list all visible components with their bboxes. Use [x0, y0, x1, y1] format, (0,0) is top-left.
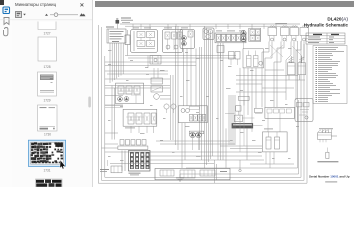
shuttle valve SV1 [150, 56, 161, 65]
attachments icon [3, 28, 7, 36]
svg-text:1730: 1730 [44, 133, 51, 137]
ride control cylinder RC1 [317, 128, 337, 158]
tank T1 [176, 174, 184, 181]
wire BC1 tank drops [148, 56, 274, 169]
gray gap above page [95, 1, 354, 7]
pilot valve table V1 [106, 27, 126, 44]
valve block B1 [131, 28, 158, 53]
brake accumulator box [243, 49, 264, 68]
zoom out small mountain [45, 14, 48, 16]
wire verticals feeding aux block [184, 49, 197, 106]
wire bottom extensions [110, 123, 264, 168]
thumbnail page 1727 partial [38, 22, 56, 30]
zoom slider [50, 13, 78, 17]
valve block B2 [163, 28, 183, 53]
brake valve BV1 [249, 28, 261, 41]
thumbnail page 1732 border [36, 179, 63, 188]
wire return bus fourth [180, 41, 299, 174]
separator under toolbar [0, 19, 92, 21]
oil cooler OC1 [151, 78, 163, 99]
thumbnail page 1732 dark image [36, 180, 62, 187]
sidebar panel background [0, 0, 92, 187]
title DL420 Hydraulic Schematic [304, 17, 349, 28]
panel header title [15, 2, 57, 7]
wire bus drop stubs [133, 24, 276, 29]
pump pair P2 [241, 30, 246, 48]
center riser bundle [200, 26, 213, 168]
app corner mark [0, 0, 4, 5]
frame return line outer [98, 25, 307, 183]
riser bundles right-center [218, 43, 247, 168]
thumbnail page 1730 [38, 105, 58, 131]
relief valve RV1 under bank [217, 46, 240, 66]
serial number text [309, 174, 350, 182]
svg-text:Миниатюры страниц: Миниатюры страниц [15, 2, 57, 7]
svg-text:1727: 1727 [43, 31, 50, 35]
bookmarks icon [4, 18, 9, 25]
legend parts list [313, 46, 347, 104]
wire bottom cross routing [105, 146, 262, 183]
svg-text:Serial Number 10001 and Up: Serial Number 10001 and Up [309, 174, 350, 178]
frame return line third [105, 41, 301, 177]
page thumbnails panel icon active [3, 7, 10, 14]
center component drops [225, 96, 263, 128]
hydraulic schematic drawing [0, 0, 354, 187]
priority valve PV1 [116, 83, 144, 104]
zoom in big mountain [80, 13, 86, 16]
pump group P1 [180, 28, 195, 49]
steering cylinder CYL1 [288, 56, 296, 75]
thumbnail page 1731 schematic image [31, 143, 64, 164]
main valve bank VB1 [215, 31, 246, 43]
svg-text:1731: 1731 [43, 169, 50, 173]
left bottom cluster [100, 160, 122, 173]
thumbnail page 1729 [38, 72, 57, 96]
option text [317, 161, 338, 162]
left tool strip [0, 0, 12, 187]
main document page background [93, 0, 354, 187]
ride control pins [323, 130, 332, 133]
thumbnail page 1731 selected frame [28, 140, 65, 166]
aux valve block AV1 [178, 106, 207, 123]
svg-text:Hydraulic Schematic: Hydraulic Schematic [304, 22, 349, 27]
thumbnail page 1728 [38, 37, 57, 61]
wire pilot bus top [120, 24, 300, 26]
wire verticals under brake accumulator [236, 68, 294, 123]
pump group P3 [189, 131, 203, 150]
mouse cursor [60, 160, 66, 169]
wire left risers and buses [102, 26, 179, 150]
boom cylinder block BC1 [263, 129, 288, 152]
frame return line second [102, 27, 305, 180]
svg-text:1729: 1729 [43, 98, 50, 102]
steering cylinder CYL2 [298, 56, 306, 75]
wire drop routing from accumulator row [262, 42, 304, 108]
lower assembly box [155, 169, 230, 180]
sidebar border [92, 0, 93, 187]
scrollbar thumb [88, 97, 91, 108]
pilot block PB2 right [295, 99, 313, 122]
pilot manifold PM1 [118, 140, 148, 150]
revision table [306, 33, 345, 44]
wire cylinder feed lines [236, 75, 305, 84]
wire pilot hose bundle [110, 43, 123, 83]
accumulator charging row A1 [268, 23, 309, 41]
scattered component labels [108, 48, 299, 161]
steering unit SU1 [123, 109, 157, 128]
thumbnail options icon [16, 12, 26, 18]
wire SU1 port stubs [105, 91, 154, 133]
check valve CV1 [125, 30, 130, 56]
solenoid Y1 top-left [116, 18, 134, 29]
svg-text:1728: 1728 [43, 65, 50, 69]
gauge G1 G2 [164, 104, 176, 113]
svg-text:DL420(A): DL420(A) [327, 17, 348, 22]
main control valve MCV [122, 151, 150, 176]
cushion valve CU1 [265, 107, 295, 132]
motor fan M1 [203, 28, 214, 40]
wire mid buses [105, 56, 236, 80]
close X [80, 3, 83, 6]
